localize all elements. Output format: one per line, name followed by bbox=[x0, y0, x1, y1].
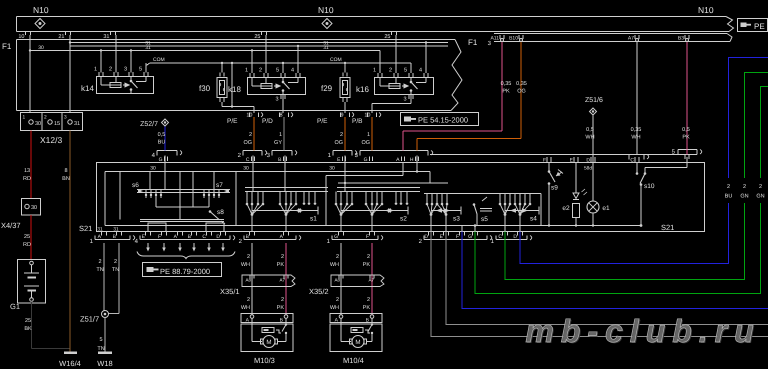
svg-text:BN: BN bbox=[62, 176, 70, 182]
svg-text:s2: s2 bbox=[400, 216, 407, 223]
svg-text:1: 1 bbox=[373, 68, 376, 74]
svg-text:10: 10 bbox=[364, 113, 370, 119]
relay k16 bbox=[356, 68, 434, 95]
svg-text:2: 2 bbox=[114, 259, 117, 265]
svg-text:s5: s5 bbox=[481, 216, 488, 223]
svg-text:N10: N10 bbox=[33, 5, 49, 15]
svg-text:PK: PK bbox=[363, 305, 371, 311]
svg-text:TN: TN bbox=[112, 267, 119, 273]
wire GY route 1 (pin E) bbox=[446, 232, 768, 325]
wire k14 pin3 to rail31 bbox=[130, 49, 132, 72]
svg-text:2: 2 bbox=[249, 132, 252, 138]
svg-text:C: C bbox=[498, 234, 502, 240]
svg-text:4: 4 bbox=[291, 68, 294, 74]
wire rail 31 (upper) bbox=[70, 41, 448, 47]
lamp e1 bbox=[587, 163, 610, 227]
svg-text:G: G bbox=[159, 157, 163, 163]
fuse and relay box F1 outline bbox=[2, 38, 478, 111]
connector X4/37 bbox=[1, 199, 41, 231]
svg-text:0,35: 0,35 bbox=[516, 81, 527, 87]
svg-text:2: 2 bbox=[44, 115, 47, 121]
svg-text:2: 2 bbox=[98, 259, 101, 265]
fuse f30 bbox=[199, 73, 227, 103]
svg-text:s8: s8 bbox=[217, 209, 224, 216]
relay k14 bbox=[81, 67, 154, 94]
svg-text:s6: s6 bbox=[132, 182, 139, 189]
svg-text:P/D: P/D bbox=[262, 118, 273, 125]
svg-text:RD: RD bbox=[23, 176, 31, 182]
wire k16 pin1 to rail30 bbox=[379, 51, 381, 74]
svg-text:P/B: P/B bbox=[352, 118, 362, 125]
connector X12/3 bbox=[21, 113, 83, 146]
svg-text:N10: N10 bbox=[318, 5, 334, 15]
svg-text:2: 2 bbox=[247, 254, 250, 260]
svg-text:F: F bbox=[158, 234, 161, 240]
svg-text:W18: W18 bbox=[97, 359, 112, 368]
svg-text:25: 25 bbox=[25, 318, 31, 324]
svg-text:2: 2 bbox=[247, 297, 250, 303]
svg-text:W16/4: W16/4 bbox=[59, 359, 81, 368]
svg-text:WH: WH bbox=[330, 305, 339, 311]
F1 bottom pin 10 bbox=[352, 113, 381, 126]
svg-text:2: 2 bbox=[281, 297, 284, 303]
svg-text:9: 9 bbox=[340, 113, 343, 119]
twisted-pair symbol on N10 bus (middle) bbox=[322, 19, 332, 29]
svg-text:X12/3: X12/3 bbox=[40, 135, 62, 145]
wire 2 PK (A to X35/1) bbox=[277, 243, 286, 315]
svg-text:2: 2 bbox=[727, 184, 730, 190]
svg-text:8: 8 bbox=[279, 113, 282, 119]
svg-text:2: 2 bbox=[389, 68, 392, 74]
svg-text:2: 2 bbox=[759, 184, 762, 190]
svg-text:D: D bbox=[424, 234, 428, 240]
wire 0,35 WH (A7 to C) bbox=[631, 42, 642, 155]
svg-text:3: 3 bbox=[124, 67, 127, 73]
brace to PE 88.79-2000 bbox=[137, 252, 235, 259]
wire k18 pin5 to COM bbox=[282, 62, 284, 73]
ground W18 bbox=[97, 353, 112, 369]
svg-text:PK: PK bbox=[682, 135, 690, 141]
wire COM to f29 top bbox=[344, 62, 346, 73]
N10 bus pin 21 bbox=[58, 32, 70, 40]
PE 54.15-2000 reference bbox=[401, 113, 479, 126]
S21 bottom connector 2 (to M10/3) bbox=[239, 232, 301, 245]
strip pin A11 bbox=[490, 35, 504, 42]
PE 88.79-2000 reference bbox=[143, 263, 222, 277]
S21 bottom connector 1 (31 31) bbox=[90, 227, 135, 246]
wire 0,5 PK (B3 to 5) bbox=[682, 42, 690, 155]
svg-text:D: D bbox=[513, 234, 517, 240]
svg-text:D: D bbox=[216, 234, 220, 240]
wire bus pin21 down bbox=[69, 35, 71, 113]
svg-text:OG: OG bbox=[361, 140, 370, 146]
rails for s3 group bbox=[338, 172, 541, 194]
svg-text:30: 30 bbox=[243, 166, 249, 172]
N10 bus pin 31 bbox=[103, 32, 115, 40]
switch s7 bbox=[203, 172, 229, 199]
wire 8 BN bbox=[62, 131, 70, 353]
switch fan s4 left bbox=[499, 194, 512, 232]
svg-text:H: H bbox=[410, 157, 414, 163]
arrows under connector 4 bbox=[146, 243, 225, 252]
svg-text:s4: s4 bbox=[530, 216, 537, 223]
wire COM to f30 top bbox=[221, 62, 223, 73]
svg-text:PK: PK bbox=[363, 262, 371, 268]
svg-text:s7: s7 bbox=[216, 182, 223, 189]
svg-text:F: F bbox=[543, 158, 546, 164]
svg-text:e2: e2 bbox=[562, 205, 570, 212]
svg-text:30: 30 bbox=[35, 121, 41, 127]
wire G blue column inside bbox=[164, 156, 166, 190]
svg-text:1: 1 bbox=[94, 67, 97, 73]
S21 top connector 1 pin E bbox=[328, 151, 357, 164]
lamp e2 with diode bbox=[562, 163, 587, 227]
switch fan s1 left bbox=[246, 192, 265, 232]
svg-text:30: 30 bbox=[329, 166, 335, 172]
svg-text:Z51/7: Z51/7 bbox=[80, 315, 99, 324]
svg-text:5: 5 bbox=[404, 68, 407, 74]
svg-text:X35/2: X35/2 bbox=[309, 287, 329, 296]
s6/s7 lower links bbox=[120, 172, 224, 232]
svg-text:s9: s9 bbox=[551, 185, 558, 192]
switch s1 arrow bbox=[252, 207, 318, 223]
connector X35/2 bbox=[309, 275, 384, 296]
control unit N10 bus bar bbox=[17, 5, 734, 32]
svg-text:8: 8 bbox=[64, 168, 67, 174]
S21 top connector 2 pin C bbox=[238, 151, 267, 164]
connector X35/1 bbox=[220, 275, 295, 296]
switch unit S21 outline bbox=[79, 163, 705, 234]
svg-text:f30: f30 bbox=[199, 84, 211, 93]
S21 top connector strip right (F E D C 5) bbox=[430, 149, 702, 172]
svg-text:S21: S21 bbox=[661, 223, 674, 232]
svg-text:COM: COM bbox=[153, 57, 165, 63]
switch s10 bbox=[636, 163, 655, 227]
battery G1 bbox=[10, 260, 46, 312]
svg-text:2: 2 bbox=[743, 184, 746, 190]
svg-text:F: F bbox=[456, 234, 459, 240]
motor M10/4 bbox=[330, 314, 382, 366]
wire 0,5 BU bbox=[158, 127, 166, 151]
svg-text:A7: A7 bbox=[628, 36, 634, 42]
switch s3 arrow bbox=[431, 207, 461, 223]
wire 2 WH (G to X35/2) bbox=[330, 243, 341, 315]
svg-text:RD: RD bbox=[23, 242, 31, 248]
svg-text:0,35: 0,35 bbox=[501, 81, 512, 87]
svg-text:3: 3 bbox=[64, 115, 67, 121]
svg-text:WH: WH bbox=[241, 262, 250, 268]
svg-text:GN: GN bbox=[740, 194, 748, 200]
svg-text:OG: OG bbox=[243, 140, 252, 146]
svg-text:0,5: 0,5 bbox=[682, 127, 690, 133]
svg-text:S21: S21 bbox=[79, 224, 92, 233]
svg-text:A8: A8 bbox=[245, 278, 251, 283]
svg-text:A8: A8 bbox=[334, 278, 340, 283]
svg-text:M: M bbox=[355, 339, 360, 346]
switch fan s4 right bbox=[514, 194, 532, 232]
wire 1 GY (pin8 to B) bbox=[274, 117, 284, 151]
strip pin A7 bbox=[628, 35, 639, 42]
svg-text:1: 1 bbox=[367, 132, 370, 138]
svg-text:B3: B3 bbox=[678, 36, 684, 42]
wire common rail inside S21 bbox=[105, 225, 641, 227]
wire k16 pin4 to rail31 bbox=[425, 41, 427, 73]
PE reference box top right bbox=[738, 19, 768, 32]
coupler Z51/7 bbox=[80, 300, 119, 324]
svg-text:COM: COM bbox=[330, 57, 342, 63]
wire pin5 to s10 bbox=[645, 157, 687, 174]
svg-text:mb-club.ru: mb-club.ru bbox=[525, 313, 760, 349]
wire 1 OG (pin10b to G) bbox=[361, 117, 372, 151]
svg-text:PK: PK bbox=[502, 89, 510, 95]
svg-text:30: 30 bbox=[150, 166, 156, 172]
svg-text:31: 31 bbox=[74, 121, 80, 127]
svg-text:30: 30 bbox=[31, 205, 37, 211]
svg-text:1: 1 bbox=[245, 68, 248, 74]
svg-text:0,5: 0,5 bbox=[586, 127, 594, 133]
svg-text:TN: TN bbox=[97, 346, 104, 352]
svg-text:F: F bbox=[366, 234, 369, 240]
svg-text:15: 15 bbox=[54, 121, 60, 127]
N10 bus pin 10 bbox=[18, 32, 30, 40]
wire 0,35 OG (B10 to H) bbox=[417, 42, 527, 151]
wire k16 pin2 to bus25 bbox=[395, 35, 397, 73]
wire E column bbox=[344, 156, 346, 192]
svg-text:C: C bbox=[630, 158, 634, 164]
svg-text:BK: BK bbox=[24, 326, 32, 332]
watermark bbox=[525, 313, 762, 350]
svg-text:B10: B10 bbox=[509, 36, 518, 42]
svg-text:2: 2 bbox=[336, 297, 339, 303]
switch s8 bbox=[209, 209, 225, 224]
S21 bottom connector 1 (to M10/4) bbox=[327, 232, 383, 245]
coupler Z52/7 bbox=[140, 119, 168, 128]
rails for s2 group bbox=[337, 188, 420, 192]
svg-text:D: D bbox=[586, 158, 590, 164]
wire k14 pin1 to rail30 bbox=[100, 49, 102, 72]
svg-text:3: 3 bbox=[275, 97, 278, 103]
switch s5 bbox=[462, 197, 492, 232]
wire COM branch at 232 bbox=[231, 62, 233, 108]
svg-text:OG: OG bbox=[334, 140, 343, 146]
wire f30 bottom to F1 pin10 bbox=[222, 102, 254, 113]
wire k16 pin5 to COM bbox=[410, 63, 412, 73]
svg-text:30: 30 bbox=[38, 45, 44, 51]
svg-text:BU: BU bbox=[725, 194, 733, 200]
svg-text:F1: F1 bbox=[468, 38, 478, 47]
svg-text:C: C bbox=[202, 234, 206, 240]
motor M10/3 bbox=[241, 314, 293, 366]
wire rail 30 inside S21 bbox=[105, 166, 430, 172]
svg-text:PK: PK bbox=[277, 305, 285, 311]
svg-text:2: 2 bbox=[281, 254, 284, 260]
relay k18 bbox=[228, 68, 306, 95]
twisted-pair symbol on N10 bus (left) bbox=[35, 19, 45, 29]
ground W16/4 bbox=[59, 353, 81, 369]
switch fan s3 right bbox=[436, 194, 449, 232]
svg-text:PE 54.15-2000: PE 54.15-2000 bbox=[418, 116, 468, 125]
wire A column link bbox=[326, 163, 403, 176]
s1 contact dots bbox=[303, 192, 317, 205]
svg-text:G: G bbox=[364, 157, 368, 163]
wire 25 RD bbox=[23, 215, 31, 259]
svg-text:WH: WH bbox=[330, 262, 339, 268]
svg-text:A7: A7 bbox=[279, 278, 285, 283]
svg-text:OG: OG bbox=[517, 89, 526, 95]
svg-text:4: 4 bbox=[419, 68, 422, 74]
svg-text:G: G bbox=[468, 234, 472, 240]
svg-text:BU: BU bbox=[158, 140, 166, 146]
N10 bus pin 25 bbox=[384, 32, 396, 40]
svg-text:P/E: P/E bbox=[227, 118, 238, 125]
svg-text:k18: k18 bbox=[228, 85, 241, 94]
svg-text:1: 1 bbox=[23, 115, 26, 121]
svg-text:WH: WH bbox=[241, 305, 250, 311]
F1 bottom pin 10 bbox=[227, 113, 263, 126]
svg-text:Z51/6: Z51/6 bbox=[585, 96, 603, 104]
wire 2 OG (pin10 to C) bbox=[243, 117, 254, 151]
svg-text:X35/1: X35/1 bbox=[220, 287, 240, 296]
svg-text:2: 2 bbox=[336, 254, 339, 260]
svg-text:0,5: 0,5 bbox=[158, 132, 166, 138]
svg-text:s10: s10 bbox=[644, 183, 655, 190]
svg-text:WH: WH bbox=[585, 135, 594, 141]
wire 2 TN left bbox=[96, 243, 104, 311]
wire k18 pin4 to rail31 bbox=[297, 45, 299, 73]
svg-text:k16: k16 bbox=[356, 85, 369, 94]
svg-text:2: 2 bbox=[367, 254, 370, 260]
wire k18 pin2 to bus25 bbox=[265, 35, 267, 73]
svg-text:s1: s1 bbox=[310, 216, 317, 223]
wire 0,5 WH (Z51/6 to D) bbox=[585, 116, 594, 163]
switch fan s2 right bbox=[365, 192, 384, 232]
wire BU route 1 (pin D) bbox=[520, 58, 768, 264]
switch s9 bbox=[548, 163, 563, 227]
wire bus pin31 down to k14 bbox=[115, 35, 117, 73]
k18 pin3 bbox=[275, 95, 285, 114]
rails for s1 group bbox=[245, 188, 328, 192]
svg-text:0,35: 0,35 bbox=[631, 127, 642, 133]
F1 bottom pin 8 bbox=[262, 113, 293, 126]
wire 2 WH (B to X35/1) bbox=[241, 243, 252, 315]
wire H column to rail30 bbox=[416, 156, 418, 173]
wire k18 pin1 to rail30 bbox=[251, 49, 253, 73]
switch s4 arrow bbox=[505, 207, 539, 223]
svg-text:13: 13 bbox=[24, 168, 30, 174]
svg-text:G1: G1 bbox=[10, 302, 20, 311]
svg-text:58d: 58d bbox=[584, 166, 592, 172]
wire BU route 2 (pin F) bbox=[462, 232, 768, 309]
svg-text:2: 2 bbox=[367, 297, 370, 303]
s2 contact dots bbox=[395, 192, 409, 205]
wire f29 bottom to F1 pin9 bbox=[344, 102, 346, 113]
svg-text:M10/4: M10/4 bbox=[343, 356, 364, 365]
svg-text:M: M bbox=[266, 339, 271, 346]
S21 top connector 3 pin B bbox=[267, 151, 297, 164]
S21 bottom connector 4 bbox=[135, 232, 235, 245]
svg-text:WH: WH bbox=[631, 135, 640, 141]
wire k14 pin5 to COM rail bbox=[146, 63, 150, 73]
switch s6 bbox=[132, 172, 230, 199]
switch fan s1 right bbox=[279, 192, 298, 232]
svg-text:2: 2 bbox=[340, 132, 343, 138]
svg-text:PE 88.79-2000: PE 88.79-2000 bbox=[160, 267, 210, 276]
S21 bottom connector 1 (C D) bbox=[491, 232, 532, 245]
svg-text:GY: GY bbox=[274, 140, 282, 146]
svg-text:10: 10 bbox=[246, 113, 252, 119]
svg-text:31: 31 bbox=[97, 227, 103, 233]
wire 2 PK (F to X35/2) bbox=[363, 243, 372, 315]
svg-text:X4/37: X4/37 bbox=[1, 221, 21, 230]
svg-text:s3: s3 bbox=[453, 216, 460, 223]
svg-text:25: 25 bbox=[24, 234, 30, 240]
svg-text:N10: N10 bbox=[698, 5, 714, 15]
S21 bottom connector 2 (D E F G) bbox=[419, 232, 492, 245]
wire bus pin10 down bbox=[29, 35, 31, 113]
svg-text:k14: k14 bbox=[81, 84, 94, 93]
svg-text:3: 3 bbox=[403, 97, 406, 103]
svg-text:2: 2 bbox=[259, 68, 262, 74]
svg-text:Z52/7: Z52/7 bbox=[140, 120, 158, 128]
strip pin B3 bbox=[678, 35, 689, 42]
wire 2 OG (pin9 to E) bbox=[334, 117, 345, 151]
wire rail 31 (lower) bbox=[70, 45, 448, 51]
wire 13 RD bbox=[23, 131, 31, 199]
wire GN route 1 (pin C) bbox=[505, 73, 768, 280]
N10 bus pin 25 bbox=[254, 32, 266, 40]
switch fan s2 left bbox=[335, 192, 354, 232]
switch fan s3 left bbox=[426, 194, 439, 232]
wire rail COM bbox=[150, 57, 411, 63]
wire GN route 2 (pin G) bbox=[475, 87, 768, 294]
wire 0,35 PK (A11 to A) bbox=[403, 42, 511, 151]
coupler Z51/6 bbox=[585, 96, 603, 115]
inner box s6 s7 s8 group bbox=[105, 172, 236, 226]
wire B column bbox=[284, 156, 286, 192]
right wire labels bbox=[719, 178, 768, 203]
svg-text:2: 2 bbox=[109, 67, 112, 73]
svg-text:A11: A11 bbox=[490, 36, 499, 42]
wire GY route 2 (pin D) bbox=[431, 232, 768, 337]
S21 top connector 3 pins G A H bbox=[355, 151, 433, 164]
F1 bottom pin 9 bbox=[317, 113, 354, 126]
s1 side link bbox=[325, 176, 327, 226]
svg-text:f29: f29 bbox=[321, 84, 333, 93]
wire 25 BK bbox=[24, 302, 70, 349]
strip pin B10 bbox=[509, 35, 523, 42]
svg-text:TN: TN bbox=[96, 267, 103, 273]
wire 5 TN bbox=[97, 318, 105, 353]
fuse f29 bbox=[321, 73, 350, 103]
svg-text:M10/3: M10/3 bbox=[254, 356, 275, 365]
svg-text:1: 1 bbox=[279, 132, 282, 138]
wire C column bbox=[252, 156, 254, 192]
connector strip 3 (A11 B10 A7 B3) bbox=[488, 34, 732, 48]
s4 side link bbox=[540, 194, 542, 226]
svg-text:PE: PE bbox=[754, 22, 765, 31]
k16 pin3 to F1 pin10b bbox=[372, 95, 413, 114]
svg-text:C: C bbox=[246, 157, 250, 163]
svg-text:5: 5 bbox=[99, 337, 102, 343]
svg-text:P/E: P/E bbox=[317, 118, 328, 125]
svg-text:G: G bbox=[334, 234, 338, 240]
wire 2 TN right bbox=[112, 243, 119, 300]
svg-text:5: 5 bbox=[276, 68, 279, 74]
S21 top connector 4 pin G bbox=[152, 151, 182, 164]
svg-text:e1: e1 bbox=[602, 205, 610, 212]
svg-text:PK: PK bbox=[277, 262, 285, 268]
svg-text:GN: GN bbox=[756, 194, 764, 200]
